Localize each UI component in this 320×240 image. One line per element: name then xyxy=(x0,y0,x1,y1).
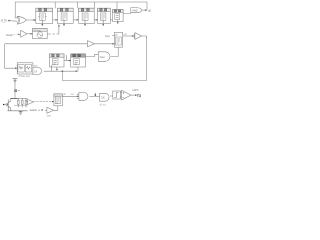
wire buffer to clock source block xyxy=(27,33,33,35)
node label freq xyxy=(105,35,110,38)
svg-text:Phase Det: Phase Det xyxy=(19,75,30,78)
wire OA3 out xyxy=(131,94,137,96)
wire U4 to U5 xyxy=(94,19,97,21)
node scope glyph xyxy=(138,94,141,97)
wire U6 to AND gate xyxy=(123,12,131,13)
block clock source B5 xyxy=(33,29,48,39)
node input port dot xyxy=(3,104,4,105)
wire CL1 to CL2 xyxy=(64,60,71,62)
wire top feedback net xyxy=(15,2,147,18)
wire XOR out to U2 xyxy=(26,19,36,21)
svg-text:loop: loop xyxy=(33,65,38,67)
wire G5 to R4 xyxy=(110,95,113,97)
wire G6 out xyxy=(89,95,99,97)
wire pill out to VCO cluster xyxy=(44,70,78,72)
resistor R2 xyxy=(21,98,23,107)
transistor Q1 network xyxy=(7,98,11,111)
svg-text:AND: AND xyxy=(132,9,138,13)
wire power stem xyxy=(14,86,16,98)
gate pill G4 xyxy=(98,52,110,62)
wire feedback L net from opamp2 xyxy=(62,37,146,80)
svg-text:1 kHz: 1 kHz xyxy=(132,89,139,92)
wire left drop to phase detector xyxy=(5,44,18,68)
flip-flop U3 xyxy=(58,8,74,26)
node junction J1 xyxy=(62,70,64,72)
flip-flop U5 xyxy=(98,8,111,26)
wire top line clock stubs xyxy=(55,2,117,9)
wire U5 to U6 xyxy=(110,19,112,21)
gate AND G6 xyxy=(77,93,88,101)
node junction J2 xyxy=(94,94,96,96)
svg-text:freq: freq xyxy=(105,35,110,38)
op-amp OA2 xyxy=(134,33,142,40)
svg-text:clk out: clk out xyxy=(99,103,106,106)
flip-flop U4 xyxy=(79,8,95,26)
svg-text:CK: CK xyxy=(101,96,105,100)
wire B6 out to opamp2 xyxy=(123,35,134,37)
svg-text:d_in: d_in xyxy=(1,18,7,22)
op-amp OA1 xyxy=(28,99,34,104)
resistor R3 xyxy=(25,98,27,107)
node vdd blob xyxy=(15,90,17,92)
XOR gate U1 xyxy=(17,16,26,24)
wire input dashes xyxy=(5,104,9,106)
wire OA1 out to B7 xyxy=(33,101,54,103)
node label under pill clock xyxy=(99,103,106,106)
wire clock label to buffer xyxy=(14,33,19,35)
gate pill PFD G3 xyxy=(33,65,42,74)
svg-text:Gen: Gen xyxy=(100,55,106,59)
gate AND G2 xyxy=(131,8,142,13)
svg-text:clock: clock xyxy=(6,33,13,37)
block B7 xyxy=(54,94,62,108)
op-amp OA3 xyxy=(120,90,131,100)
svg-text:vcont: vcont xyxy=(30,108,37,112)
wire pill3 to B6 bottom riser xyxy=(111,47,119,56)
svg-text:LF: LF xyxy=(34,69,37,73)
wire CL2 to pill3 xyxy=(85,54,98,56)
node vcont label xyxy=(30,108,37,112)
flip-flop U6 xyxy=(113,10,124,25)
wire clock to U3 bottom xyxy=(47,25,59,35)
wire analog mid rail xyxy=(14,105,28,107)
svg-text:mix: mix xyxy=(70,94,74,96)
block VCO cluster CL2 xyxy=(67,54,86,67)
wire to opamp1 xyxy=(26,101,28,103)
buffer T1 xyxy=(21,30,27,37)
svg-text:q5: q5 xyxy=(148,9,151,13)
wire label to B6 xyxy=(112,35,114,37)
wire AND out to right riser xyxy=(142,9,147,11)
wire U2 to U3 xyxy=(53,19,58,21)
ground antenna symbol xyxy=(13,79,18,86)
block counter B6 xyxy=(114,32,123,47)
node d_in input label xyxy=(1,18,7,22)
wire B7 out to gate3 xyxy=(62,95,79,97)
svg-text:ctr: ctr xyxy=(115,33,118,36)
flip-flop U2 xyxy=(36,8,53,26)
buffer T2 on long net xyxy=(88,41,95,47)
svg-text:out: out xyxy=(124,33,128,36)
wire analog bottom rail xyxy=(8,110,28,112)
wire analog top rail xyxy=(10,97,17,99)
block limiter R4 xyxy=(113,91,121,99)
node scope tap label xyxy=(148,9,151,13)
ground G2 bottom xyxy=(19,111,23,114)
gate pill G5 xyxy=(100,93,109,101)
wire riser into cluster2 bottom xyxy=(77,67,79,71)
wire T3 out riser to B7 xyxy=(54,107,58,110)
node clock label row2 xyxy=(6,33,13,37)
node label under comparator xyxy=(47,116,52,118)
wire OA2 out xyxy=(142,36,147,38)
resistor R1 xyxy=(17,98,19,107)
comparator T3 xyxy=(38,107,53,113)
wire d_in to XOR xyxy=(8,20,17,23)
svg-text:ph: ph xyxy=(63,94,66,96)
svg-text:cmp: cmp xyxy=(47,116,52,118)
block phase detector 2-cell xyxy=(17,63,33,78)
block VCO cluster CL1 xyxy=(49,54,64,71)
wire long clock distribution net xyxy=(5,43,115,45)
wire U3 to U4 xyxy=(73,19,78,21)
